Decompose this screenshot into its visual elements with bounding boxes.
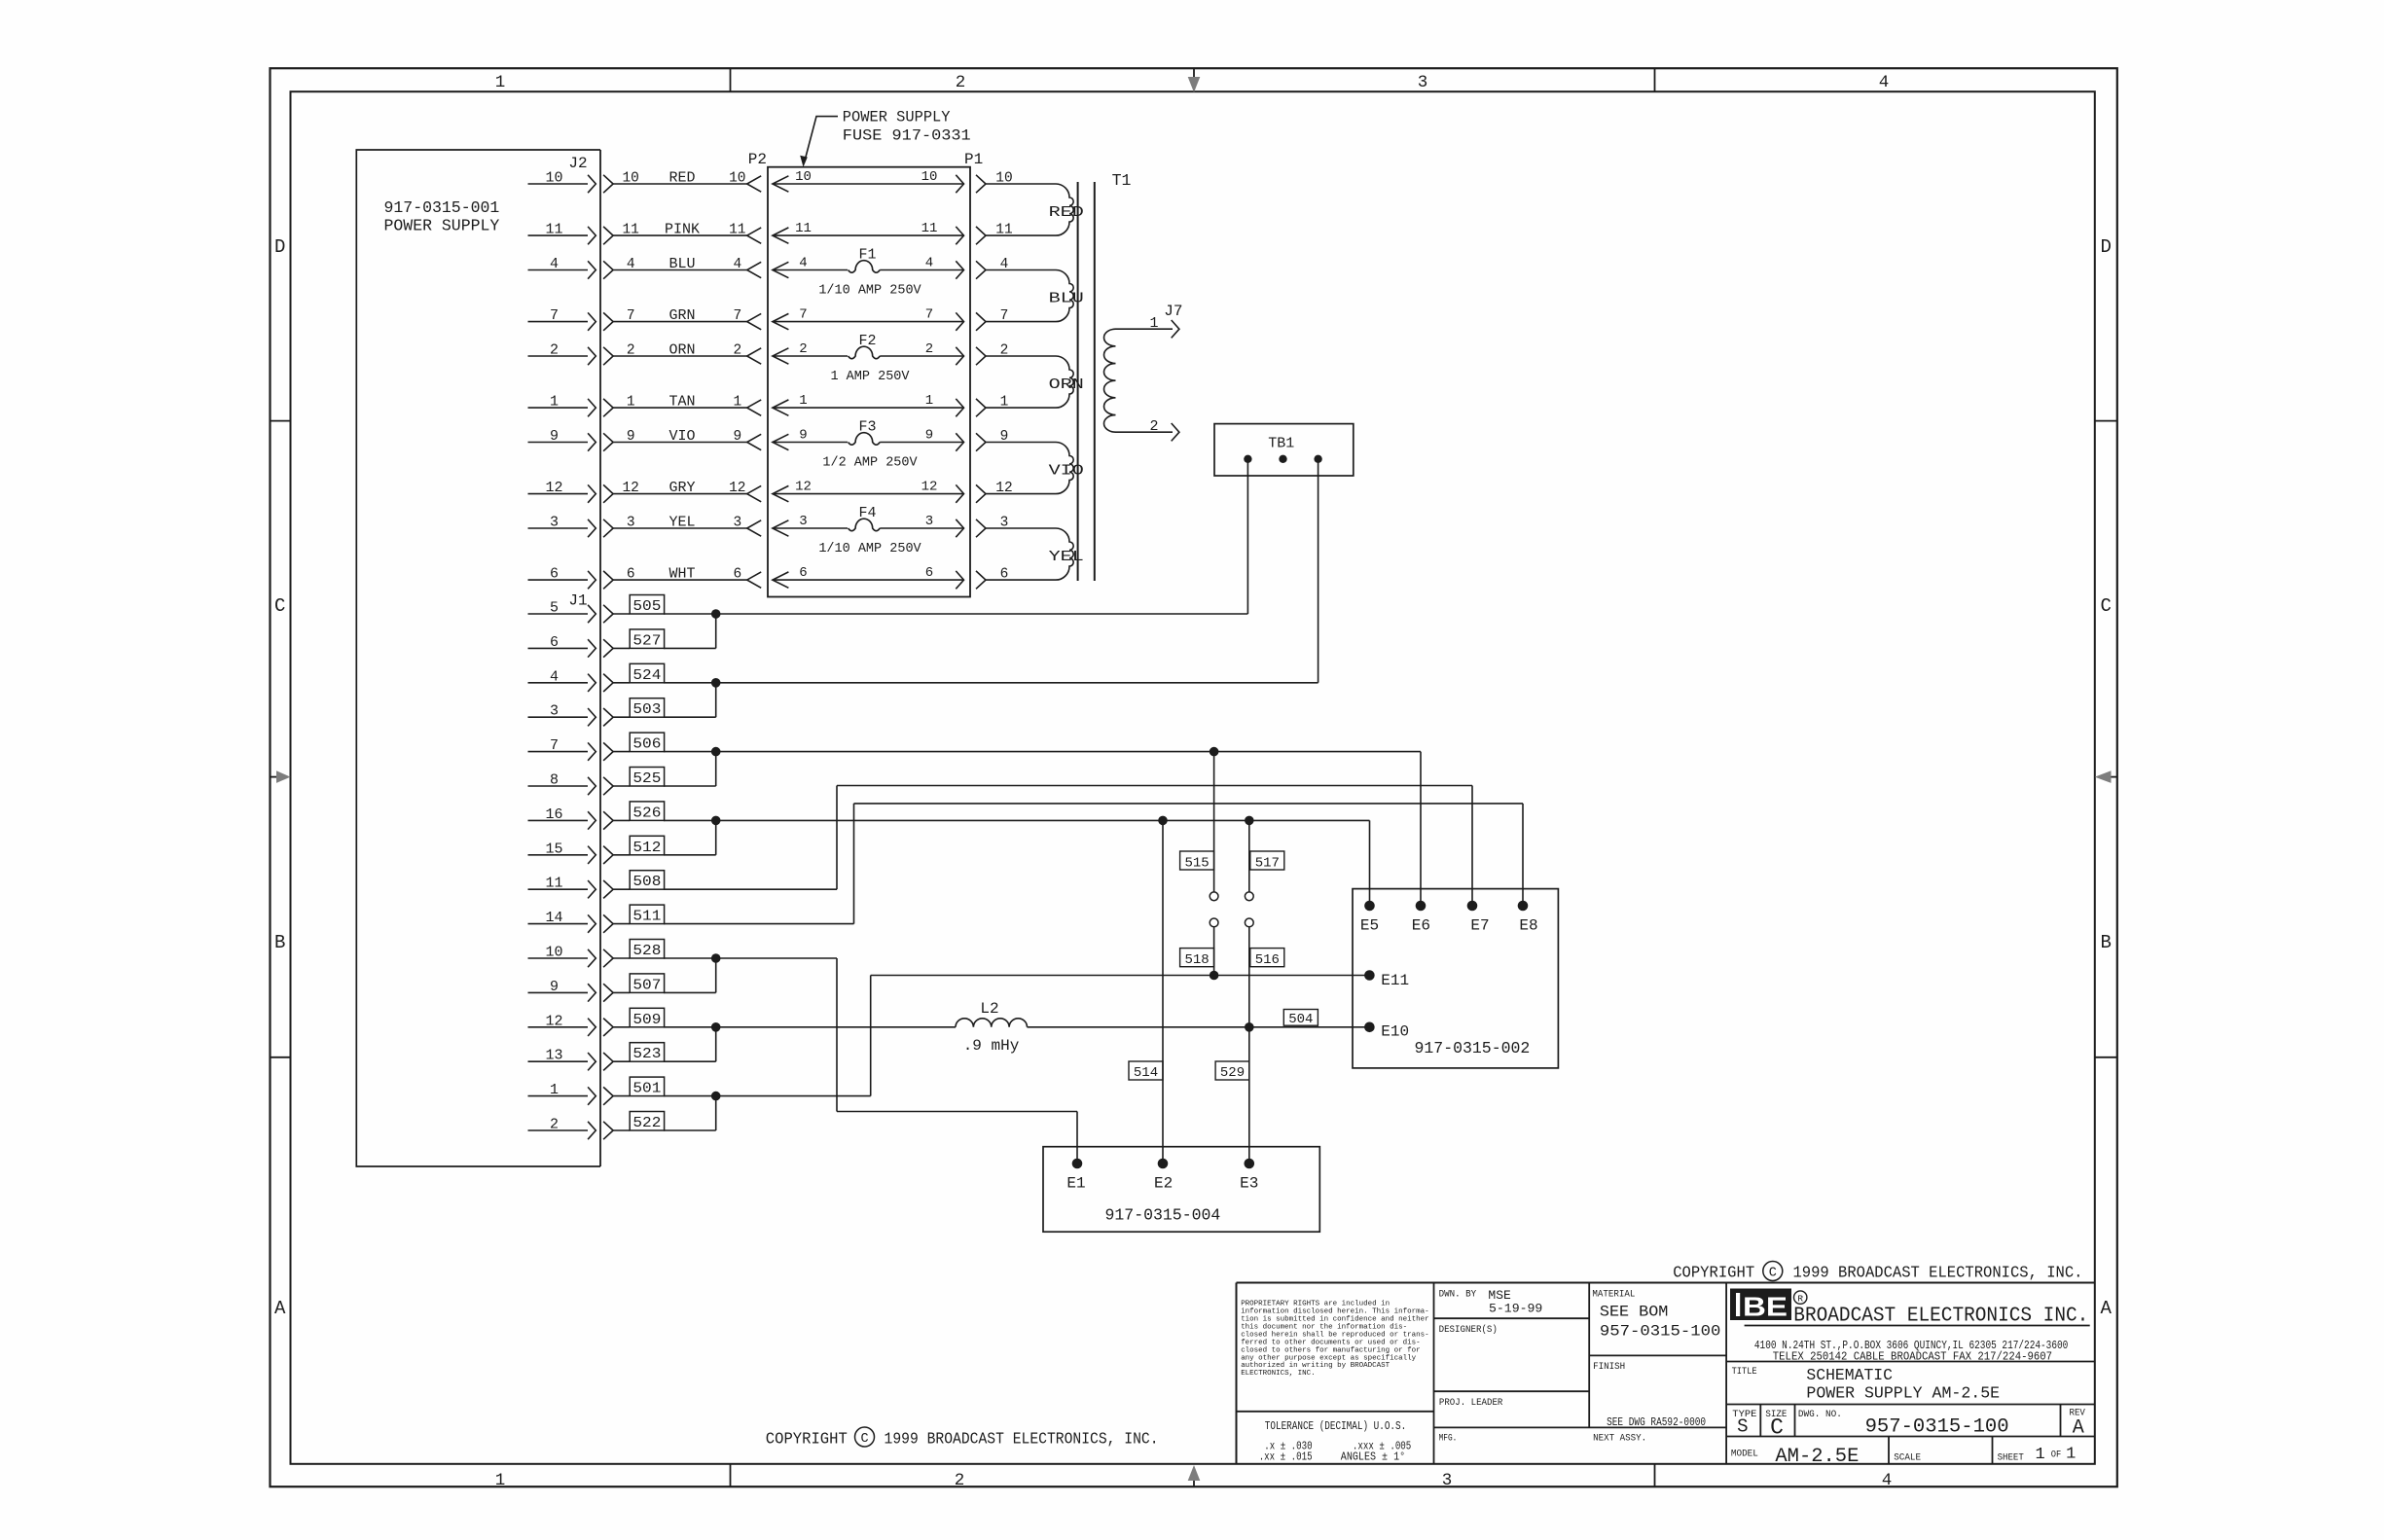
svg-text:4: 4	[1000, 257, 1009, 272]
svg-text:517: 517	[1255, 856, 1280, 872]
svg-text:509: 509	[632, 1012, 661, 1028]
junction	[1158, 816, 1168, 826]
connector J1 pin 12 lead	[528, 1013, 631, 1036]
svg-text:11: 11	[995, 223, 1012, 238]
connector J2 pin 3 lead	[528, 515, 614, 538]
svg-text:BLU: BLU	[1049, 291, 1084, 307]
connector J2 pin 2 lead	[528, 342, 614, 366]
connector J2 pin 6 lead	[528, 566, 614, 590]
connector J1 pin 10 lead	[528, 945, 631, 968]
fused-block feedthrough line 7	[773, 307, 964, 331]
svg-text:1: 1	[495, 73, 506, 92]
svg-text:9: 9	[550, 979, 559, 995]
fuse F3 on line 9	[773, 419, 964, 471]
material / finish / next assy cells	[1592, 1289, 1720, 1445]
connector J2 pin 10 lead	[528, 170, 614, 194]
svg-text:1: 1	[799, 393, 807, 409]
svg-text:F1: F1	[858, 247, 876, 264]
svg-text:closed herein shall be reprodu: closed herein shall be reproduced or tra…	[1241, 1331, 1429, 1339]
fuse F2 on line 2	[773, 333, 964, 384]
svg-text:FINISH: FINISH	[1593, 1361, 1625, 1373]
wire segment	[715, 820, 717, 854]
node label 514	[1129, 1061, 1163, 1081]
node label 501	[630, 1077, 664, 1097]
svg-text:10: 10	[995, 171, 1012, 187]
svg-text:3: 3	[799, 514, 807, 529]
svg-text:506: 506	[632, 736, 661, 753]
svg-text:522: 522	[632, 1115, 661, 1131]
svg-text:4: 4	[799, 256, 807, 271]
wire net 528/507 to terminal E1	[664, 953, 1077, 1164]
svg-text:1999 BROADCAST ELECTRONICS, IN: 1999 BROADCAST ELECTRONICS, INC.	[885, 1431, 1159, 1450]
wire segment	[664, 682, 1318, 684]
fuse F4 on line 3	[773, 505, 964, 556]
svg-text:526: 526	[632, 805, 661, 821]
svg-text:508: 508	[632, 874, 661, 890]
fused-block feedthrough line 11	[773, 221, 964, 244]
connector J1 pin 4 lead	[528, 668, 631, 692]
svg-text:2: 2	[550, 342, 559, 359]
wire net 511 to terminal E8	[664, 804, 1523, 924]
svg-text:7: 7	[799, 307, 807, 323]
svg-text:1/2 AMP 250V: 1/2 AMP 250V	[822, 456, 918, 471]
svg-text:6: 6	[550, 634, 559, 651]
connector P1 pin 12 lead	[976, 481, 1056, 503]
svg-text:3: 3	[1442, 1471, 1453, 1490]
svg-text:523: 523	[632, 1046, 661, 1062]
svg-text:C: C	[1769, 1267, 1777, 1281]
svg-text:516: 516	[1255, 952, 1280, 968]
svg-text:12: 12	[729, 481, 745, 496]
svg-text:2: 2	[799, 341, 807, 357]
svg-text:5-19-99: 5-19-99	[1489, 1301, 1542, 1315]
svg-text:any other purpose except as sp: any other purpose except as specifically	[1241, 1354, 1416, 1362]
connector P1 pin 4 lead	[976, 257, 1056, 279]
transformer T1 primary winding ORN	[1049, 356, 1084, 408]
wire net 509/523 through L2 to terminal E10	[664, 1022, 1369, 1061]
node label 523	[630, 1043, 664, 1063]
Broadcast Electronics logo	[1730, 1289, 1807, 1322]
copyright note (drawing area)	[766, 1427, 1159, 1450]
svg-text:AM-2.5E: AM-2.5E	[1775, 1446, 1859, 1468]
svg-text:3: 3	[1418, 73, 1428, 92]
wire J2-9 to P2-9 (VIO)	[613, 428, 761, 450]
wire segment	[664, 957, 837, 959]
terminal block TB1	[1214, 424, 1354, 476]
terminal board 917-0315-002	[1353, 889, 1558, 1068]
connector P1 pin 10 lead	[976, 171, 1056, 194]
wire segment	[664, 785, 716, 787]
svg-text:1999 BROADCAST ELECTRONICS, IN: 1999 BROADCAST ELECTRONICS, INC.	[1793, 1264, 2083, 1282]
svg-text:11: 11	[795, 221, 812, 236]
svg-text:POWER SUPPLY AM-2.5E: POWER SUPPLY AM-2.5E	[1806, 1384, 2000, 1403]
svg-text:J7: J7	[1164, 303, 1182, 320]
svg-text:YEL: YEL	[1049, 549, 1084, 565]
svg-text:524: 524	[632, 667, 661, 684]
node label 509	[630, 1008, 664, 1028]
svg-text:A: A	[274, 1298, 286, 1319]
svg-text:DWG. NO.: DWG. NO.	[1798, 1409, 1842, 1420]
node label 508	[630, 871, 664, 891]
terminal E1	[1066, 1159, 1085, 1193]
jumper 517 (net 526 tap)	[1245, 820, 1283, 900]
junction	[711, 678, 721, 688]
connector J2 pin 11 lead	[528, 222, 614, 245]
junction	[711, 747, 721, 757]
svg-text:NEXT ASSY.: NEXT ASSY.	[1593, 1433, 1646, 1445]
svg-text:tion is submitted in confidenc: tion is submitted in confidence and neit…	[1241, 1316, 1429, 1324]
connector J1 pin 11 lead	[528, 876, 631, 899]
svg-text:C: C	[2100, 595, 2111, 617]
svg-text:518: 518	[1184, 952, 1209, 968]
svg-text:4: 4	[1882, 1471, 1893, 1490]
fused-block feedthrough line 10	[773, 169, 964, 193]
wire J2-3 to P2-3 (YEL)	[613, 515, 761, 537]
svg-text:VIO: VIO	[1049, 463, 1084, 480]
svg-text:OF: OF	[2051, 1450, 2062, 1461]
svg-text:525: 525	[632, 770, 661, 787]
svg-text:917-0315-002: 917-0315-002	[1414, 1039, 1530, 1057]
wire segment	[664, 1095, 871, 1097]
node label 505	[630, 595, 664, 616]
node label 507	[630, 974, 664, 994]
svg-text:TELEX 250142 CABLE BROADCAS: TELEX 250142 CABLE BROADCAST FAX 217/224…	[1773, 1350, 2052, 1364]
node label 527	[630, 629, 664, 650]
svg-text:10: 10	[545, 945, 562, 961]
svg-text:S: S	[1737, 1416, 1748, 1438]
connector J1 pin 3 lead	[528, 703, 631, 727]
svg-text:12: 12	[995, 481, 1012, 496]
svg-text:527: 527	[632, 632, 661, 649]
svg-text:PINK: PINK	[665, 222, 700, 238]
connector J2 pin 4 lead	[528, 256, 614, 279]
svg-text:4: 4	[733, 257, 741, 272]
fused-block feedthrough line 6	[773, 565, 964, 589]
svg-text:.xx ± .015: .xx ± .015	[1259, 1450, 1313, 1463]
connector J1 pin 1 lead	[528, 1082, 631, 1105]
junction	[1245, 816, 1254, 826]
svg-text:1: 1	[1000, 395, 1009, 411]
svg-text:VIO: VIO	[668, 428, 695, 445]
terminal E6	[1412, 901, 1430, 935]
svg-text:1: 1	[2035, 1446, 2044, 1464]
svg-text:529: 529	[1220, 1065, 1245, 1081]
svg-text:10: 10	[729, 171, 745, 187]
junction	[711, 1092, 721, 1101]
svg-text:11: 11	[921, 221, 938, 236]
terminal E8	[1518, 901, 1538, 935]
transformer T1 primary winding RED	[1049, 184, 1084, 235]
svg-text:D: D	[274, 236, 285, 258]
svg-text:COPYRIGHT: COPYRIGHT	[766, 1431, 848, 1450]
svg-text:512: 512	[632, 840, 661, 856]
svg-text:A: A	[2073, 1416, 2084, 1439]
svg-text:E8: E8	[1519, 917, 1537, 935]
svg-text:4: 4	[1879, 73, 1890, 92]
svg-text:DESIGNER(S): DESIGNER(S)	[1439, 1324, 1498, 1336]
connector P1 pin 9 lead	[976, 429, 1056, 451]
svg-text:GRY: GRY	[668, 480, 695, 496]
junction	[711, 609, 721, 619]
wire segment	[664, 647, 716, 649]
connector J1 pin 9 lead	[528, 979, 631, 1002]
wire J2-10 to P2-10 (RED)	[613, 170, 761, 193]
svg-text:3: 3	[550, 515, 559, 531]
svg-text:528: 528	[632, 943, 661, 959]
svg-text:TB1: TB1	[1268, 436, 1294, 452]
terminal E7	[1467, 901, 1490, 935]
svg-text:5: 5	[550, 600, 559, 617]
svg-text:B: B	[274, 932, 285, 953]
svg-text:7: 7	[550, 737, 559, 754]
type / size / dwg no / rev cells	[1732, 1407, 2085, 1440]
connector J1 pin 2 lead	[528, 1117, 631, 1140]
svg-text:SEE BOM: SEE BOM	[1600, 1304, 1669, 1321]
svg-text:2: 2	[955, 1471, 965, 1490]
svg-text:authorized in writing by BROAD: authorized in writing by BROADCAST	[1241, 1362, 1390, 1370]
node label 528	[630, 940, 664, 960]
tolerance note	[1259, 1419, 1412, 1463]
junction	[1245, 1022, 1254, 1032]
svg-text:7: 7	[550, 307, 559, 324]
svg-text:SCALE: SCALE	[1894, 1452, 1921, 1464]
svg-text:6: 6	[925, 565, 933, 581]
wire net 501/522 to terminal E11	[664, 971, 1369, 1130]
svg-text:7: 7	[1000, 308, 1009, 324]
svg-text:12: 12	[545, 480, 562, 496]
svg-text:SEE DWG RA592-0000: SEE DWG RA592-0000	[1607, 1415, 1706, 1429]
svg-text:T1: T1	[1112, 171, 1132, 190]
svg-text:3: 3	[550, 703, 559, 720]
wire segment	[715, 614, 717, 648]
wire segment	[715, 752, 717, 786]
svg-text:10: 10	[795, 169, 812, 185]
svg-text:FUSE 917-0331: FUSE 917-0331	[843, 127, 971, 145]
svg-text:1 AMP 250V: 1 AMP 250V	[830, 370, 910, 384]
svg-text:2: 2	[956, 73, 966, 92]
connector J1 pin 8 lead	[528, 772, 631, 796]
terminal E10	[1364, 1022, 1409, 1041]
svg-text:1: 1	[733, 395, 741, 411]
svg-text:.9 mHy: .9 mHy	[963, 1037, 1020, 1055]
svg-text:3: 3	[733, 516, 741, 531]
svg-text:504: 504	[1288, 1012, 1313, 1027]
wire segment	[715, 958, 717, 992]
node label 512	[630, 836, 664, 856]
wire net 506/525 to terminal E6	[664, 747, 1421, 906]
inductor L2 .9 mHy	[956, 1000, 1028, 1055]
svg-text:12: 12	[545, 1013, 562, 1029]
connector J2 pin 7 lead	[528, 307, 614, 331]
svg-text:1: 1	[627, 395, 635, 411]
svg-text:9: 9	[1000, 429, 1009, 445]
wire segment	[715, 683, 717, 717]
svg-text:503: 503	[632, 701, 661, 718]
svg-text:J2: J2	[568, 155, 587, 172]
svg-text:9: 9	[925, 428, 933, 444]
jumper 518 (to E11 line)	[1180, 918, 1218, 976]
svg-text:917-0315-001: 917-0315-001	[384, 198, 500, 217]
terminal E2	[1154, 1159, 1173, 1193]
copyright note (above title block)	[1673, 1262, 2082, 1282]
svg-text:3: 3	[627, 516, 635, 531]
svg-text:BLU: BLU	[668, 256, 695, 272]
svg-text:C: C	[274, 595, 285, 617]
node label 503	[630, 698, 664, 719]
svg-text:E11: E11	[1381, 972, 1409, 989]
svg-text:1: 1	[2066, 1445, 2076, 1463]
wire J2-11 to P2-11 (PINK)	[613, 222, 761, 244]
svg-text:515: 515	[1184, 856, 1209, 872]
svg-text:R: R	[1797, 1294, 1803, 1305]
connector P1 pin 6 lead	[976, 567, 1056, 590]
title cell	[1732, 1366, 2001, 1403]
fuse F1 on line 4	[773, 247, 964, 299]
wire J2-12 to P2-12 (GRY)	[613, 480, 761, 502]
connector J2	[568, 150, 600, 1166]
connector J2 pin 9 lead	[528, 428, 614, 451]
svg-text:514: 514	[1134, 1065, 1158, 1081]
wire segment	[664, 854, 716, 856]
svg-text:SCHEMATIC: SCHEMATIC	[1806, 1366, 1893, 1384]
svg-text:F4: F4	[858, 505, 876, 521]
svg-text:3: 3	[925, 514, 933, 529]
svg-text:6: 6	[1000, 567, 1009, 583]
terminal E3	[1240, 1159, 1258, 1193]
svg-text:9: 9	[550, 428, 559, 445]
svg-text:10: 10	[545, 170, 562, 187]
svg-text:MFG.: MFG.	[1439, 1433, 1458, 1445]
wire net 508 to terminal E7	[664, 786, 1472, 907]
svg-text:4: 4	[550, 668, 559, 685]
svg-text:957-0315-100: 957-0315-100	[1865, 1416, 2009, 1439]
svg-text:11: 11	[622, 223, 638, 238]
svg-text:MODEL: MODEL	[1731, 1449, 1758, 1460]
svg-text:E5: E5	[1360, 917, 1379, 935]
svg-text:DWN. BY: DWN. BY	[1439, 1289, 1477, 1301]
svg-text:C: C	[1770, 1415, 1784, 1441]
svg-text:501: 501	[632, 1081, 661, 1097]
svg-text:2: 2	[550, 1117, 559, 1133]
connector J2 pin 1 lead	[528, 394, 614, 417]
node label 526	[630, 802, 664, 822]
node label 506	[630, 733, 664, 753]
svg-text:information disclosed herein.: information disclosed herein. This infor…	[1241, 1308, 1429, 1316]
svg-text:F2: F2	[858, 333, 876, 349]
svg-text:14: 14	[545, 910, 562, 926]
junction	[1210, 747, 1219, 757]
svg-text:11: 11	[545, 876, 562, 892]
svg-text:E1: E1	[1066, 1174, 1085, 1192]
svg-text:1: 1	[550, 394, 559, 411]
connector P1 pin 2 lead	[976, 343, 1056, 366]
svg-text:PROJ. LEADER: PROJ. LEADER	[1439, 1397, 1503, 1409]
wire segment	[664, 716, 716, 718]
connector J7 pin 1 lead	[1116, 315, 1179, 338]
svg-text:P1: P1	[964, 151, 983, 168]
svg-text:GRN: GRN	[668, 307, 695, 324]
svg-text:9: 9	[627, 429, 635, 445]
svg-text:WHT: WHT	[668, 566, 695, 583]
svg-text:917-0315-004: 917-0315-004	[1104, 1206, 1220, 1225]
junction	[711, 953, 721, 963]
transformer T1 primary winding YEL	[1049, 528, 1084, 580]
company name and address	[1745, 1306, 2090, 1364]
svg-text:12: 12	[795, 480, 812, 495]
wire net 524/503 to TB1 terminal 3	[664, 459, 1318, 717]
svg-text:10: 10	[921, 169, 938, 185]
svg-text:1/10 AMP 250V: 1/10 AMP 250V	[818, 284, 921, 299]
fuse block P2 to P1 (POWER SUPPLY FUSE 917-0331)	[748, 151, 983, 597]
transformer T1 core	[1078, 182, 1095, 581]
svg-text:L2: L2	[980, 1000, 998, 1018]
svg-text:SHEET: SHEET	[1998, 1452, 2024, 1464]
svg-text:J1: J1	[568, 592, 587, 610]
svg-text:ELECTRONICS, INC.: ELECTRONICS, INC.	[1241, 1370, 1316, 1378]
svg-text:6: 6	[627, 567, 635, 583]
svg-text:957-0315-100: 957-0315-100	[1600, 1322, 1721, 1340]
svg-text:6: 6	[733, 567, 741, 583]
svg-text:3: 3	[1000, 516, 1009, 531]
connector J1 pin 13 lead	[528, 1048, 631, 1071]
svg-text:P2: P2	[748, 151, 767, 168]
svg-text:7: 7	[925, 307, 933, 323]
svg-text:1: 1	[550, 1082, 559, 1098]
svg-text:4: 4	[550, 256, 559, 272]
svg-text:TITLE: TITLE	[1732, 1366, 1757, 1378]
junction	[1210, 971, 1219, 981]
title block	[1237, 1283, 2095, 1464]
svg-text:2: 2	[1149, 418, 1158, 435]
svg-text:6: 6	[799, 565, 807, 581]
connector J2 pin 12 lead	[528, 480, 614, 503]
connector J1 pin 5 lead	[528, 600, 631, 624]
svg-text:13: 13	[545, 1048, 562, 1064]
node label 511	[630, 905, 664, 925]
svg-text:2: 2	[1000, 343, 1009, 359]
svg-text:MATERIAL: MATERIAL	[1592, 1289, 1635, 1301]
svg-text:POWER SUPPLY: POWER SUPPLY	[843, 109, 951, 126]
wire segment	[664, 613, 1247, 615]
wire 514 (net 526 to terminal E2)	[1162, 820, 1164, 1164]
svg-text:1: 1	[1149, 315, 1158, 332]
svg-text:10: 10	[622, 171, 638, 187]
wire segment	[664, 1129, 716, 1131]
svg-text:B: B	[2100, 932, 2111, 953]
svg-text:F3: F3	[858, 419, 876, 436]
fused-block feedthrough line 12	[773, 480, 964, 503]
svg-text:BE: BE	[1743, 1292, 1788, 1322]
connector P1 pin 3 lead	[976, 516, 1056, 538]
svg-text:POWER SUPPLY: POWER SUPPLY	[384, 217, 500, 235]
svg-text:9: 9	[799, 428, 807, 444]
svg-text:TAN: TAN	[668, 394, 695, 411]
svg-text:4: 4	[627, 257, 635, 272]
connector J1 pin 14 lead	[528, 910, 631, 933]
proprietary rights note	[1241, 1301, 1429, 1379]
svg-text:BROADCAST ELECTRONICS INC.: BROADCAST ELECTRONICS INC.	[1793, 1306, 2088, 1328]
jumper 516 / wire 529 to terminal E3	[1245, 918, 1283, 1164]
svg-text:7: 7	[627, 308, 635, 324]
wire segment	[664, 751, 1421, 753]
svg-text:A: A	[2100, 1298, 2112, 1319]
terminal E5	[1360, 901, 1379, 935]
svg-text:2: 2	[925, 341, 933, 357]
wire net 505/527 to TB1 terminal 1	[664, 459, 1247, 649]
svg-text:7: 7	[733, 308, 741, 324]
terminal board 917-0315-004	[1043, 1147, 1319, 1233]
svg-text:RED: RED	[668, 170, 695, 187]
